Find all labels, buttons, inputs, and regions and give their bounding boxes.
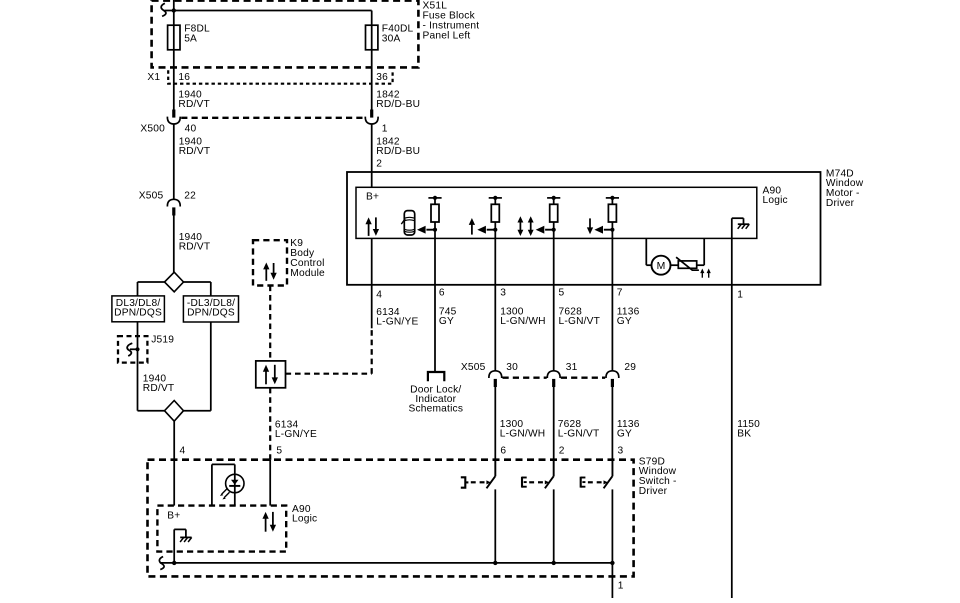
switch actuator triangle (604, 480, 609, 484)
svg-text:6: 6 (500, 445, 506, 456)
splice diamond lower merge (138, 410, 165, 412)
resistor (pull-up) at x=553.7 (547, 197, 560, 199)
switch upper contact wire at x=495.3 (494, 460, 496, 477)
svg-text:16: 16 (178, 72, 190, 83)
svg-text:2: 2 (559, 445, 565, 456)
switch lower contact wire (553, 489, 555, 563)
option box -DL3/DL8/DPN/DQS (183, 296, 238, 322)
module K9 Body Control Module dashed box (253, 240, 287, 285)
dashed control wire K9 to window command box (269, 286, 271, 361)
illumination LED circle (226, 474, 244, 492)
svg-text:4: 4 (180, 446, 186, 457)
svg-text:L-GN/YE: L-GN/YE (275, 429, 317, 440)
svg-text:5: 5 (276, 446, 282, 457)
svg-text:40: 40 (185, 124, 197, 135)
wire 7628 L-GN/VT from M74D pin 5 (553, 285, 555, 371)
svg-text:1: 1 (382, 124, 388, 135)
svg-text:X505: X505 (461, 362, 486, 373)
car door flap line (401, 219, 405, 224)
wire pin 6 inside M74D (434, 238, 436, 284)
breaker reset arrows (701, 272, 703, 278)
switch lower contact wire (494, 489, 496, 563)
svg-text:Driver: Driver (826, 198, 855, 209)
dashed control wire to wire 6134 (286, 373, 372, 375)
svg-text:Logic: Logic (292, 514, 317, 525)
switch actuator triangle (545, 480, 550, 484)
internal ground wire of A90 logic (731, 218, 733, 285)
svg-text:BK: BK (737, 429, 751, 440)
X500 terminal pin 40 (172, 110, 175, 118)
window up/down command box (256, 361, 286, 388)
command box up arrow (265, 371, 267, 385)
svg-text:1: 1 (618, 581, 624, 592)
svg-text:B+: B+ (167, 510, 180, 521)
switch actuator dashes (471, 481, 476, 483)
svg-text:DPN/DQS: DPN/DQS (114, 308, 162, 319)
wire from DL3 box to splice J519 (137, 322, 139, 411)
svg-text:6: 6 (439, 288, 445, 299)
fuse block X51L dashed outline (152, 1, 419, 68)
wire horizontal feed inside fuse block (165, 10, 372, 12)
bus continuation squiggle (159, 557, 164, 570)
module M74D Window Motor - Driver box (347, 172, 821, 285)
B+ down arrow (375, 217, 377, 230)
wire 1842 RD/D-BU from X500-1 to M74D pin 2 (371, 124, 373, 187)
svg-text:B+: B+ (366, 191, 379, 202)
wire pin 4 inside S79D to logic (173, 460, 175, 506)
switch actuator dashes (529, 481, 534, 483)
S79D logic down arrow (272, 512, 274, 526)
terminal to door lock schematics (428, 372, 444, 381)
switch blade (487, 476, 496, 488)
wire pin 5 inside M74D (553, 238, 555, 284)
module S79D Window Switch - Driver dashed box (148, 460, 634, 577)
command box down arrow (274, 365, 276, 379)
svg-text:36: 36 (376, 72, 388, 83)
X500 terminal pin 1 (370, 110, 373, 118)
wire 745 GY from M74D pin 6 (434, 285, 436, 372)
fuse F8DL 5A (168, 25, 180, 50)
wire to S79D pin 4 (173, 421, 175, 460)
svg-text:RD/VT: RD/VT (179, 146, 211, 157)
LED diode triangle (231, 480, 239, 485)
switch blade (545, 476, 554, 488)
wire 6134 L-GN/YE from M74D pin 4 (371, 285, 373, 329)
switch upper contact wire at x=612.4 (611, 460, 613, 477)
LED emission arrows (222, 489, 227, 494)
switch lower contact wire (611, 489, 613, 563)
X505 terminal pin 29 (606, 371, 619, 378)
K9 up arrow (265, 268, 267, 280)
svg-text:1: 1 (737, 290, 743, 301)
motor M circle (652, 256, 671, 275)
wire breaker up to logic (697, 264, 705, 266)
single up arrow before resistor 2 (471, 224, 473, 235)
svg-text:30: 30 (506, 362, 518, 373)
wire 1842 RD/D-BU from X1-36 (371, 84, 373, 110)
svg-text:30A: 30A (382, 33, 401, 44)
bus junction dot switch 2 (552, 561, 556, 565)
switch actuator bracket ] (461, 477, 466, 487)
svg-text:3: 3 (618, 445, 624, 456)
svg-text:L-GN/YE: L-GN/YE (376, 317, 418, 328)
wire 1150 BK from M74D pin 1 (731, 285, 733, 598)
switch actuator dashes (588, 481, 593, 483)
chassis ground symbol in A90 (738, 223, 749, 225)
J519 splice curl symbol (127, 343, 132, 356)
svg-text:DPN/DQS: DPN/DQS (187, 308, 235, 319)
wire junction to fuse F8DL (173, 11, 175, 84)
S79D logic up arrow (265, 518, 267, 532)
car icon (404, 211, 414, 235)
svg-text:RD/D-BU: RD/D-BU (376, 146, 420, 157)
svg-text:GY: GY (617, 316, 632, 327)
connector X1 dashed strip (168, 70, 392, 83)
B+ up arrow (368, 223, 370, 236)
wire motor to breaker (670, 264, 678, 266)
svg-text:RD/D-BU: RD/D-BU (376, 99, 420, 110)
switch upper contact wire at x=553.7 (553, 460, 555, 477)
single down arrow before resistor 4 (589, 218, 591, 228)
svg-text:L-GN/WH: L-GN/WH (500, 429, 546, 440)
option box DL3/DL8/DPN/DQS (112, 296, 164, 322)
wire 1300 L-GN/WH to S79D pin 6 (494, 387, 496, 476)
svg-text:4: 4 (376, 290, 382, 301)
wire continuation squiggle top left (161, 3, 166, 16)
svg-text:X1: X1 (147, 72, 160, 83)
svg-text:7: 7 (617, 288, 623, 299)
ground wire inside S79D logic (173, 529, 175, 563)
switch actuator bracket E (580, 477, 582, 488)
branch wire to option -DL3 right (184, 281, 211, 283)
wire into fuse block from top (173, 0, 175, 11)
svg-text:31: 31 (566, 362, 578, 373)
X505 dashed line segment 2 (561, 377, 605, 379)
svg-text:X505: X505 (139, 191, 164, 202)
splice J519 dashed box (118, 336, 147, 363)
svg-text:L-GN/VT: L-GN/VT (559, 316, 601, 327)
svg-text:J519: J519 (151, 335, 174, 346)
junction dot (172, 8, 176, 12)
svg-text:2: 2 (376, 158, 382, 169)
bus junction dot switch 3 (610, 561, 614, 565)
svg-text:3: 3 (500, 288, 506, 299)
resistor (pull-up) at x=612.4 (606, 197, 619, 199)
svg-text:L-GN/VT: L-GN/VT (558, 429, 600, 440)
svg-text:RD/VT: RD/VT (179, 242, 211, 253)
X505 terminal pin 31 (547, 371, 560, 378)
wire pin 7 inside M74D (611, 238, 613, 284)
switch actuator triangle (486, 480, 491, 484)
chassis ground symbol in S79D (180, 536, 191, 538)
svg-text:5: 5 (559, 288, 565, 299)
switch actuator bracket E (521, 477, 523, 488)
dashed control wire down to S79D pin 5 (269, 388, 271, 460)
svg-text:22: 22 (184, 191, 196, 202)
wire pin 4 inside M74D (371, 238, 373, 284)
wire 1136 GY from M74D pin 7 (611, 285, 613, 371)
resistor (pull-up) at x=435.0 (428, 197, 441, 199)
wire pin 5 inside S79D (269, 460, 271, 506)
svg-text:RD/VT: RD/VT (143, 383, 175, 394)
svg-text:Schematics: Schematics (408, 404, 463, 415)
fuse F40DL 30A (366, 25, 378, 50)
wire feed down to fuse F40DL (371, 11, 373, 84)
X505 dashed line segment 1 (503, 377, 547, 379)
wire 1136 GY to S79D pin 3 (611, 387, 613, 476)
svg-text:GY: GY (439, 316, 454, 327)
wire 1940 RD/VT from X1-16 (173, 84, 175, 110)
resistor (pull-up) at x=495.3 (489, 197, 502, 199)
wire pin 3 inside M74D (494, 238, 496, 284)
J519 splice link and junction dot (130, 348, 138, 350)
svg-text:Driver: Driver (639, 486, 668, 497)
wire 1940 RD/VT from X505-22 (173, 216, 175, 273)
A90 logic box inside M74D (356, 187, 757, 238)
illumination LED loop wire (211, 464, 213, 505)
connector X500 dashed line (181, 117, 364, 119)
svg-text:5A: 5A (184, 33, 197, 44)
wire S79D pin 1 to bottom (611, 563, 613, 598)
X505 terminal pin 30 (489, 371, 502, 378)
svg-text:RD/VT: RD/VT (178, 99, 210, 110)
wire 1300 L-GN/WH from M74D pin 3 (494, 285, 496, 371)
svg-text:Panel Left: Panel Left (423, 30, 471, 41)
LED cathode bar (229, 485, 240, 487)
svg-text:29: 29 (624, 362, 636, 373)
connector X505 terminal pin 22 (167, 199, 180, 206)
ground bus wire inside S79D (160, 562, 613, 564)
svg-text:X500: X500 (140, 124, 165, 135)
svg-text:L-GN/WH: L-GN/WH (500, 316, 546, 327)
self-resetting circuit breaker (rect with slash) (678, 261, 696, 268)
svg-text:GY: GY (617, 429, 632, 440)
K9 down arrow (273, 263, 275, 274)
branch wire to option DL3 left (138, 281, 165, 283)
bus junction dot pin4 branch (172, 561, 176, 565)
bus junction dot switch 1 (493, 561, 497, 565)
wire 1940 RD/VT from X500-40 (173, 124, 175, 199)
wire 7628 L-GN/VT to S79D pin 2 (553, 387, 555, 476)
wire from -DL3 box down (210, 322, 212, 411)
svg-text:Module: Module (290, 268, 325, 279)
svg-text:M: M (657, 261, 666, 272)
A90 logic box inside S79D dashed (157, 506, 286, 552)
motor drive wire left (645, 238, 647, 265)
double up-down arrows before resistor 3 (519, 222, 521, 231)
svg-text:Logic: Logic (763, 195, 788, 206)
splice diamond upper (165, 272, 184, 292)
switch blade (604, 476, 613, 488)
